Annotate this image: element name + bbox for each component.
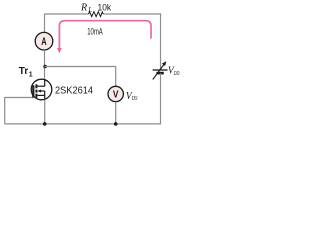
svg-text:10mA: 10mA: [87, 26, 103, 36]
svg-text:A: A: [41, 36, 46, 48]
wire gate horizontal: [4, 97, 33, 99]
current annotation arrowhead: [57, 48, 62, 53]
svg-text:Tr: Tr: [19, 66, 29, 77]
node drain junction dot: [43, 65, 47, 69]
variable source VDD plate short: [156, 72, 163, 75]
wire ammeter to mosfet drain: [44, 50, 46, 80]
svg-text:R: R: [80, 2, 87, 13]
wire voltmeter to bottom rail: [115, 102, 117, 124]
node source-bottom junction dot: [43, 122, 47, 126]
wire bottom rail: [5, 123, 161, 125]
svg-text:V: V: [113, 90, 119, 101]
wire VDS branch vertical to voltmeter: [115, 66, 117, 86]
svg-text:2SK2614: 2SK2614: [55, 86, 93, 97]
voltmeter V: [108, 86, 123, 101]
current annotation pink path: [59, 21, 151, 49]
svg-text:10k: 10k: [98, 2, 112, 13]
svg-text:DS: DS: [131, 95, 138, 102]
variable source VDD arrow: [153, 64, 164, 80]
wire drain upper (top rail to ammeter): [44, 14, 46, 33]
variable source VDD plate long: [153, 69, 168, 71]
wire mosfet source to bottom rail: [44, 100, 46, 125]
ammeter A: [35, 32, 53, 50]
svg-text:DD: DD: [173, 71, 180, 77]
wire top from drain node to resistor: [44, 13, 88, 15]
wire gate left vertical: [4, 98, 6, 125]
svg-text:L: L: [87, 6, 92, 14]
wire top from resistor to right rail: [103, 13, 161, 15]
transistor Tr1 2SK2614 (MOSFET): [31, 79, 52, 100]
wire right rail lower: [160, 73, 162, 124]
svg-text:1: 1: [29, 71, 33, 78]
resistor RL zigzag: [89, 12, 104, 17]
wire VDS branch horizontal: [45, 66, 116, 68]
node voltmeter-bottom junction dot: [114, 122, 118, 126]
wire right rail upper (to VDD source): [160, 13, 162, 70]
